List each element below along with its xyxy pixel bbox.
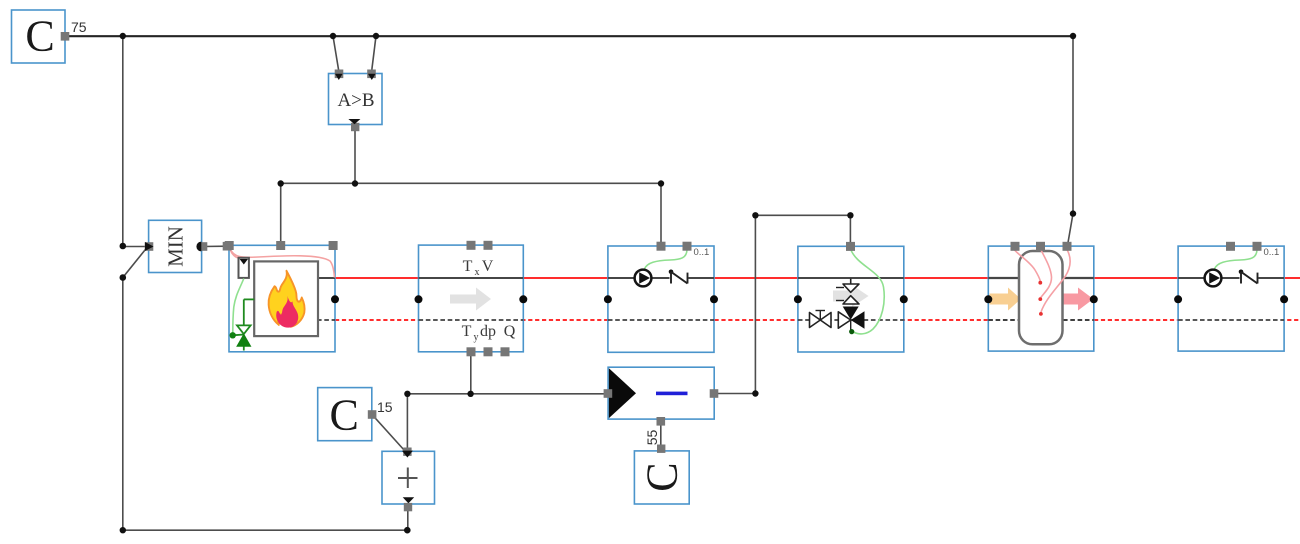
svg-text:55: 55 [644, 430, 660, 446]
svg-text:dp: dp [480, 323, 496, 340]
svg-text:0..1: 0..1 [1264, 247, 1280, 258]
svg-text:C: C [330, 391, 359, 440]
svg-text:0..1: 0..1 [694, 247, 710, 258]
svg-text:C: C [25, 12, 54, 61]
svg-text:MIN: MIN [164, 226, 188, 267]
svg-text:C: C [638, 462, 687, 491]
svg-text:x: x [475, 267, 480, 278]
svg-text:Q: Q [504, 323, 516, 340]
svg-text:A>B: A>B [337, 90, 374, 111]
svg-text:75: 75 [71, 19, 87, 35]
svg-text:V: V [482, 258, 494, 275]
svg-text:15: 15 [377, 399, 393, 415]
svg-text:T: T [462, 323, 472, 340]
svg-text:T: T [463, 258, 473, 275]
svg-text:y: y [474, 332, 479, 343]
